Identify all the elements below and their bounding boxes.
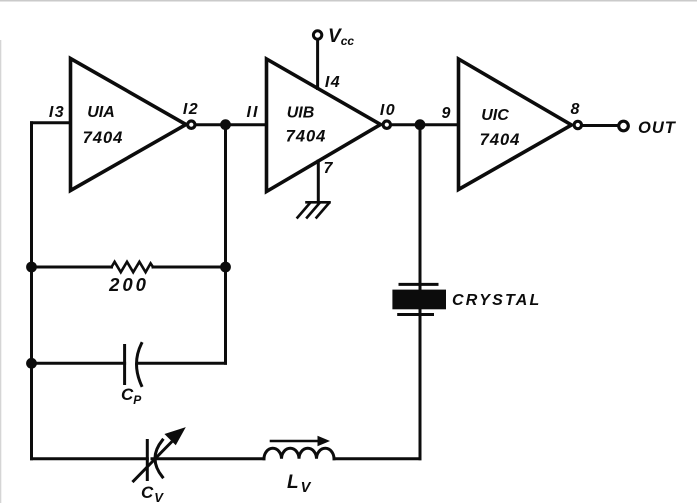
wire capacitor Cp row left (32, 362, 125, 365)
capacitor Cp (125, 344, 142, 386)
wire capacitor Cp row right (140, 362, 226, 365)
svg-text:UIB: UIB (287, 105, 315, 122)
node junction E (left bus / Cp) (26, 358, 37, 369)
wire U1B output to U1C input (392, 123, 459, 126)
svg-text:7404: 7404 (480, 131, 521, 149)
node junction B (U1B out / crystal) (415, 119, 426, 130)
inverter U1A (7404) (71, 59, 187, 191)
wire U1A output to U1B input (196, 123, 267, 126)
svg-text:CRYSTAL: CRYSTAL (452, 292, 541, 309)
svg-text:I2: I2 (183, 101, 199, 118)
svg-text:9: 9 (442, 105, 451, 122)
svg-text:I0: I0 (380, 102, 396, 119)
wire U1C output to OUT terminal (583, 124, 618, 127)
svg-text:I4: I4 (325, 74, 341, 91)
wire bottom row middle (152, 457, 264, 460)
scan border top (0, 0, 697, 2)
wire crystal bottom vertical (419, 309, 422, 459)
wire resistor row left (32, 266, 112, 269)
inverter U1C (7404) (459, 59, 572, 190)
wire junction B down to crystal (419, 125, 422, 290)
svg-text:200: 200 (108, 274, 149, 295)
scan border left (0, 40, 1, 503)
wire Vcc to pin 14 (316, 40, 319, 88)
node junction A (U1A out / feedback) (220, 119, 231, 130)
wire bottom row left (32, 457, 148, 460)
arrow over Lv (271, 436, 330, 446)
node junction C (left bus / resistor) (26, 262, 37, 273)
power terminal Vcc circle (313, 31, 321, 39)
output bubble U1C pin 8 (574, 121, 581, 128)
node junction D (feedback / resistor) (220, 262, 231, 273)
svg-text:7404: 7404 (286, 128, 327, 146)
svg-text:I3: I3 (49, 104, 65, 121)
output bubble U1A pin 12 (188, 121, 195, 128)
inverter U1B (7404) (267, 59, 381, 192)
wire pin 7 to ground (317, 161, 320, 202)
terminal OUT circle (619, 121, 629, 131)
svg-text:UIC: UIC (481, 107, 509, 124)
variable capacitor Cv (134, 429, 184, 481)
crystal X1 (392, 284, 446, 314)
wire resistor row right (153, 266, 226, 269)
wire U1A input pin 13 (32, 121, 71, 124)
wire feedback vertical (224, 125, 227, 364)
wire left vertical bus (30, 123, 33, 459)
inductor Lv (coil) (264, 448, 334, 459)
resistor 200 (112, 262, 154, 272)
svg-text:OUT: OUT (638, 119, 677, 137)
svg-text:7404: 7404 (83, 129, 124, 147)
output bubble U1B pin 10 (383, 121, 390, 128)
svg-text:7: 7 (324, 160, 334, 177)
svg-text:8: 8 (571, 101, 580, 118)
svg-text:II: II (247, 104, 260, 121)
ground (pin 7) (298, 202, 330, 217)
wire bottom row right (334, 457, 420, 460)
svg-text:UIA: UIA (87, 104, 115, 121)
